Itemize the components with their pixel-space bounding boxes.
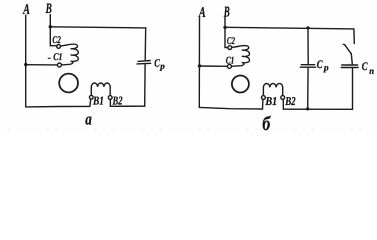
node A junction dot: [24, 63, 27, 66]
node B junction dot: [49, 25, 52, 28]
svg-text:В2: В2: [112, 93, 123, 107]
wire: top rail: [50, 27, 145, 28]
wire: Cn branch upper lead: [353, 29, 355, 44]
node B junction dot (b): [223, 26, 226, 29]
svg-text:а: а: [85, 110, 92, 129]
scan artifact streak: [8, 129, 368, 131]
main winding risers (b): [263, 87, 282, 95]
motor rotor circle: [59, 74, 78, 93]
svg-text:С: С: [317, 59, 323, 71]
svg-text:С: С: [362, 61, 368, 73]
svg-text:С2: С2: [52, 35, 60, 46]
svg-text:С1: С1: [226, 55, 235, 66]
wire: phase lead A vertical (b): [198, 18, 200, 108]
capacitor Cp (b) plates: [300, 65, 315, 68]
wire: aux branch from A to C1 (b): [200, 65, 228, 67]
svg-text:В2: В2: [284, 94, 295, 108]
terminal C1 circle (b): [227, 64, 231, 68]
capacitor Cp (working) plates: [137, 61, 151, 64]
wire: right side upper: [144, 28, 147, 60]
wire: phase lead A vertical: [25, 15, 27, 107]
svg-text:п: п: [369, 67, 374, 77]
main winding coil (b): [263, 83, 282, 87]
svg-text:С2: С2: [227, 36, 235, 47]
wire: rail riser to B2: [109, 100, 111, 107]
wire: Cn branch lower: [352, 68, 354, 109]
svg-text:В1: В1: [265, 94, 278, 108]
wire: bottom rail left part (b): [199, 107, 262, 109]
wire: rail riser to B1 (b): [262, 99, 264, 109]
switch blade end tick: [343, 44, 345, 45]
node tee Cp bottom: [306, 107, 309, 110]
wire: bottom rail right part: [110, 105, 144, 107]
wire: top rail (b): [225, 27, 354, 29]
svg-text:р: р: [323, 63, 329, 73]
starting winding coil (vertical, 3 loops): [62, 44, 79, 65]
wire: Cp branch lower: [307, 68, 309, 109]
wire: aux branch from A to C1: [26, 64, 58, 66]
svg-text:В1: В1: [92, 93, 104, 107]
wire: bottom rail left part: [26, 105, 90, 108]
wire: C2 to coil top: [61, 45, 67, 46]
wire: rail riser to B1: [89, 99, 92, 106]
node tee Cp top: [306, 26, 309, 29]
main winding coil (3 arcs): [91, 83, 110, 87]
wire: right side lower: [144, 65, 146, 107]
wire: Cp branch upper: [307, 28, 309, 64]
svg-text:В: В: [223, 4, 230, 20]
terminal B1 circle (b): [262, 96, 266, 100]
stray mark before C1: [48, 57, 50, 59]
terminal B1 circle: [89, 95, 93, 99]
terminal C2 circle (b): [228, 46, 232, 50]
terminal C2 circle: [57, 45, 61, 49]
terminal B2 circle: [108, 96, 112, 100]
svg-text:С1: С1: [53, 52, 62, 63]
svg-text:б: б: [262, 113, 271, 133]
wire: switch to Cn: [351, 54, 352, 65]
terminal C1 circle: [57, 63, 61, 67]
main winding risers: [91, 87, 110, 96]
capacitor Cn (starting) plates: [341, 65, 358, 68]
wire: bottom rail right part (b): [283, 108, 352, 110]
svg-text:р: р: [159, 61, 165, 71]
node A junction dot (b): [198, 64, 201, 67]
motor rotor circle (b): [232, 76, 249, 93]
wire: C2 to coil top (b): [232, 46, 238, 49]
wire: rail riser to B2 (b): [282, 100, 284, 110]
terminal B2 circle (b): [281, 96, 285, 100]
wire: phase lead B vertical (b): [225, 16, 228, 47]
switch blade (open): [345, 45, 352, 54]
starting winding coil (b): [231, 46, 249, 67]
wire: phase lead B vertical: [50, 15, 56, 46]
